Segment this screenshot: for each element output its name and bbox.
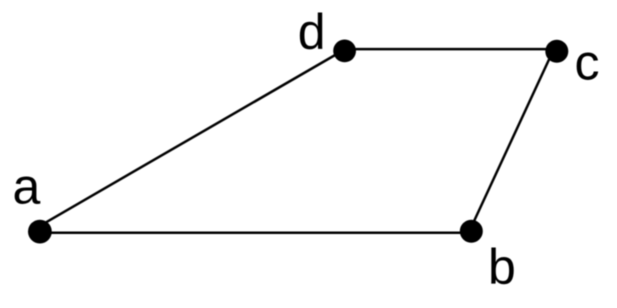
- node a: [28, 220, 52, 244]
- node b: [460, 220, 483, 243]
- wire edge d-c: [345, 48, 557, 51]
- wire edge a-b: [40, 231, 471, 234]
- wire edge c-b: [469, 52, 553, 233]
- svg-text:a: a: [13, 159, 41, 215]
- svg-text:b: b: [488, 239, 516, 295]
- node c: [545, 40, 568, 63]
- wire edge a-d: [42, 50, 343, 224]
- svg-text:d: d: [298, 4, 326, 60]
- svg-text:c: c: [575, 35, 600, 91]
- node d: [333, 40, 356, 63]
